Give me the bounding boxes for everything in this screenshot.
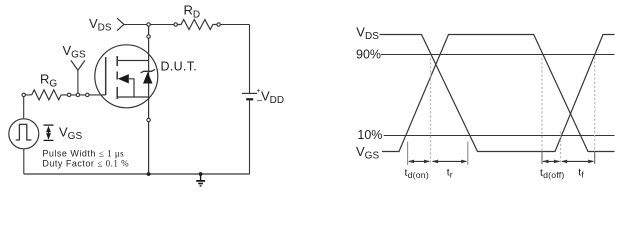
node circle gate left [22,93,25,96]
wire right rail lower [249,99,251,174]
source contact line [117,96,148,98]
svg-text:90%: 90% [356,47,381,61]
body diode cathode bar (zener) [141,69,155,73]
probe VGS arms [71,60,85,70]
wire top right [219,24,250,26]
node circle source below DUT [147,118,150,121]
svg-text:td(off): td(off) [540,167,564,180]
dashed line 90% crossing turn-on [430,58,432,165]
resistor RD [176,20,219,30]
svg-text:VDS: VDS [89,16,112,34]
dimension arrow tf [561,160,594,164]
90% reference line [381,54,615,56]
probe VGS stem [77,70,79,93]
svg-text:VDS: VDS [356,25,379,43]
dashed line td(off) start [541,58,543,151]
wire gate [24,94,32,96]
node circle gate 1 [67,93,70,96]
svg-text:10%: 10% [357,128,382,142]
svg-text:VGS: VGS [63,43,86,61]
wire gate to mosfet [61,94,106,96]
svg-text:tr: tr [447,167,453,180]
gate bar [105,57,107,95]
resistor RG [32,90,61,100]
node junction dot source to rail [147,172,151,176]
node circle RD left [174,23,177,26]
wire top rail [124,24,176,26]
dashed line tf start [560,132,562,166]
svg-text:Duty Factor ≤ 0.1 %: Duty Factor ≤ 0.1 % [42,159,129,169]
wire left rail upper [23,95,25,119]
dashed line tr end [467,142,469,166]
wire drain vertical [148,25,150,175]
svg-text:D.U.T.: D.U.T. [161,60,198,74]
svg-text:RD: RD [184,3,201,21]
dashed line tf end [594,57,596,151]
node junction dot at ground [199,172,203,176]
waveform VDS trace [380,35,615,152]
channel bar dashed [116,56,118,99]
svg-text:Pulse Width ≤ 1 μs: Pulse Width ≤ 1 μs [42,149,124,159]
tick td(off) start [541,151,543,164]
10% reference line [384,135,615,137]
svg-text:VGS: VGS [59,125,82,143]
dimension arrow td(off) [542,160,560,164]
pulse generator source circle [9,119,39,149]
body diode triangle [143,72,153,84]
battery VDD plate positive [242,92,257,94]
ground [196,174,205,186]
waveform VGS trace [382,35,615,152]
node circle RD right [217,23,220,26]
wire bottom rail [24,173,250,175]
probe VDS [117,18,124,31]
dimension arrow td(on) [408,160,430,164]
node circle drain 2 [147,35,150,38]
dimension arrow VGS pulse [44,125,54,140]
svg-text:VDD: VDD [261,89,284,107]
node circle gate 2 [76,93,79,96]
transistor DUT circle [95,45,158,108]
battery VDD plate negative [246,98,253,100]
svg-text:RG: RG [40,72,57,90]
tick tf end [594,151,596,164]
dimension arrow tr [432,160,468,164]
body arrow [118,74,129,83]
wire right rail upper [249,25,251,94]
svg-text:VGS: VGS [356,144,379,162]
pulse generator waveform glyph [16,124,32,140]
wire left rail lower [23,149,25,174]
svg-text:td(on): td(on) [405,167,429,180]
svg-text:tf: tf [578,167,584,180]
dashed line td(on) start [407,142,409,166]
drain contact line [117,60,148,62]
node circle drain junction [147,23,150,26]
node circle gate 3 [86,93,89,96]
